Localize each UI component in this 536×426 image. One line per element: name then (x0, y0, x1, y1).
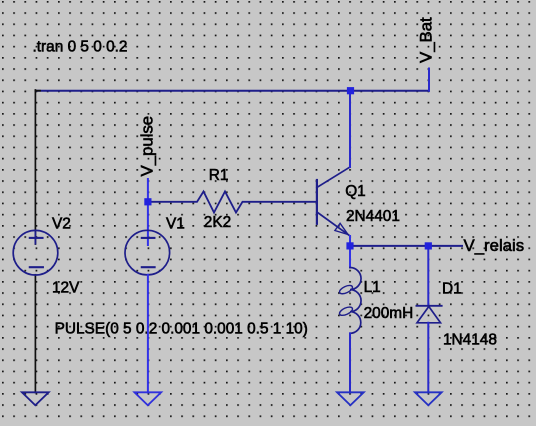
svg-text:V_pulse: V_pulse (137, 116, 156, 177)
svg-text:PULSE(0 5 0.2 0.001 0.001 0.5: PULSE(0 5 0.2 0.001 0.001 0.5 1 10) (55, 321, 308, 338)
svg-text:1N4148: 1N4148 (443, 332, 497, 349)
svg-text:V1: V1 (166, 216, 185, 233)
svg-text:12V: 12V (52, 280, 80, 297)
svg-text:.tran 0 5 0 0.2: .tran 0 5 0 0.2 (33, 39, 128, 56)
svg-text:V2: V2 (52, 216, 71, 233)
svg-text:V_relais: V_relais (464, 236, 525, 255)
svg-text:2N4401: 2N4401 (346, 208, 400, 225)
svg-text:Q1: Q1 (345, 183, 366, 200)
svg-text:200mH: 200mH (364, 305, 414, 322)
svg-text:2K2: 2K2 (204, 214, 231, 231)
svg-text:V_Bat: V_Bat (417, 17, 436, 63)
svg-text:L1: L1 (364, 279, 381, 296)
svg-text:R1: R1 (209, 167, 229, 184)
svg-text:D1: D1 (442, 281, 462, 298)
